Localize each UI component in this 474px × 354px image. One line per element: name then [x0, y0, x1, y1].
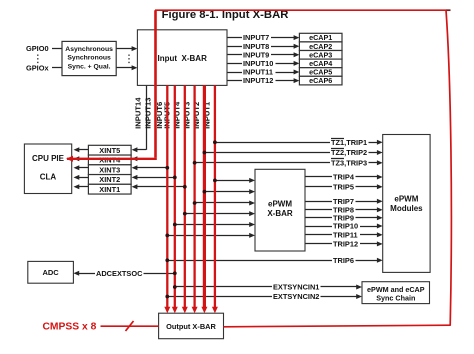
svg-text:Modules: Modules — [390, 204, 423, 213]
svg-text:GPIO0: GPIO0 — [26, 44, 49, 53]
svg-text:TRIP4: TRIP4 — [333, 173, 355, 182]
junction INPUT6 / TRIP6 — [165, 258, 169, 262]
svg-text:Sync Chain: Sync Chain — [376, 294, 415, 303]
svg-text:CLA: CLA — [40, 173, 57, 182]
wire qualifier to Input X-BAR (lower) — [116, 65, 137, 70]
wire qualifier to Input X-BAR (upper) — [116, 46, 137, 51]
XINT5 box — [88, 145, 131, 155]
junction INPUT5 / ePWM X-BAR — [173, 223, 177, 227]
XINT3 box — [88, 165, 131, 175]
red annotation right wire — [446, 10, 451, 325]
svg-text:INPUT13: INPUT13 — [143, 98, 152, 129]
wire GPIOx to qualifier — [52, 67, 62, 69]
red annotation bottom wire — [224, 325, 451, 327]
svg-text:ePWM: ePWM — [268, 200, 292, 209]
svg-text:Asynchronous: Asynchronous — [65, 46, 113, 53]
red annotation corner overshoot tick — [446, 9, 451, 11]
wire INPUT14 (to XINT5) — [132, 85, 147, 152]
wire TRIP5 — [305, 182, 383, 191]
svg-text:XINT5: XINT5 — [99, 146, 120, 155]
wire GPIO0 to qualifier — [52, 48, 62, 50]
wire XINT4 to CPU PIE — [74, 156, 89, 161]
wire INPUT13 (red highlighted, to XINT4) — [66, 10, 157, 162]
wire INPUT12 — [227, 76, 299, 85]
junction INPUT5 / EXTSYNCIN1 — [173, 285, 177, 289]
junction INPUT4 / ePWM X-BAR — [183, 212, 187, 216]
wire XINT1 to CPU PIE — [74, 184, 89, 189]
eCAP2 box — [299, 42, 342, 51]
ePWM X-BAR box U2 — [255, 169, 305, 251]
junction INPUT2 / ePWM X-BAR — [203, 190, 207, 194]
wire TZ3,TRIP3 — [195, 158, 383, 167]
CPU PIE CLA box — [24, 144, 71, 194]
svg-text:ePWM: ePWM — [394, 195, 418, 204]
wire EXTSYNCIN2 — [167, 292, 362, 301]
junction INPUT4 / XINT1 — [183, 185, 187, 189]
junction INPUT5 / XINT2 — [173, 176, 177, 180]
wire INPUT4 to ePWM X-BAR — [185, 211, 255, 216]
XINT2 box — [88, 175, 131, 185]
wire INPUT9 — [227, 50, 299, 59]
junction INPUT6 / XINT3 — [165, 166, 169, 170]
wire TZ1,TRIP1 — [215, 138, 383, 147]
red annotation top wire — [155, 9, 446, 11]
wire TRIP11 — [305, 230, 383, 239]
input qualifier box — [62, 41, 116, 75]
svg-text:TZ1,TRIP1: TZ1,TRIP1 — [331, 138, 367, 147]
svg-text:TRIP12: TRIP12 — [333, 240, 358, 249]
qualifier output ellipsis dots — [128, 55, 130, 65]
wire INPUT2 red vertical to Output X-BAR — [201, 85, 207, 313]
wire ADCEXTSOC — [73, 269, 174, 278]
svg-text:INPUT14: INPUT14 — [134, 97, 143, 129]
wire TRIP9 — [305, 213, 383, 222]
svg-text:ADCEXTSOC: ADCEXTSOC — [96, 269, 143, 278]
Input X-BAR box U1 — [137, 30, 227, 86]
wire TRIP4 — [305, 173, 383, 182]
svg-text:XINT2: XINT2 — [99, 175, 120, 184]
svg-text:GPIOx: GPIOx — [26, 63, 49, 72]
wire TRIP12 — [305, 240, 383, 249]
svg-text:CPU PIE: CPU PIE — [32, 154, 65, 163]
wire TRIP10 — [305, 222, 383, 231]
junction INPUT2 / TZ2 — [203, 151, 207, 155]
wire XINT5 to CPU PIE — [74, 147, 89, 152]
junction INPUT1 / ePWM X-BAR — [213, 179, 217, 183]
junction INPUT3 / ePWM X-BAR — [193, 201, 197, 205]
wire INPUT3 to ePWM X-BAR — [195, 201, 255, 206]
wire INPUT4 red vertical to Output X-BAR — [182, 85, 188, 313]
svg-text:TRIP11: TRIP11 — [333, 230, 358, 239]
XINT1 box — [88, 184, 131, 194]
wire INPUT5 to ePWM X-BAR — [175, 222, 255, 227]
wire TRIP8 — [305, 205, 383, 214]
svg-text:Sync. + Qual.: Sync. + Qual. — [68, 63, 111, 70]
wire XINT2 to CPU PIE — [74, 175, 89, 180]
junction INPUT1 / TZ1 — [213, 140, 217, 144]
wire TRIP7 — [305, 197, 383, 206]
wire INPUT6 to XINT3 — [132, 165, 168, 170]
svg-text:Output X-BAR: Output X-BAR — [166, 322, 216, 331]
Output X-BAR box U4 — [159, 313, 224, 339]
wire INPUT7 — [227, 33, 299, 42]
wire INPUT2 to ePWM X-BAR — [204, 189, 255, 194]
ePWM Modules box U3 — [383, 135, 430, 273]
svg-text:XINT4: XINT4 — [99, 156, 121, 165]
svg-text:TRIP10: TRIP10 — [333, 222, 358, 231]
wire INPUT6 to ePWM X-BAR — [167, 233, 255, 238]
wire INPUT3 red vertical to Output X-BAR — [192, 85, 198, 313]
junction INPUT5 / ADCEXTSOC — [173, 271, 177, 275]
svg-text:XINT1: XINT1 — [99, 185, 120, 194]
eCAP5 box — [299, 68, 342, 77]
wire EXTSYNCIN1 — [175, 283, 362, 292]
ePWM and eCAP Sync Chain box — [362, 282, 430, 304]
svg-text:eCAP6: eCAP6 — [309, 76, 332, 85]
junction INPUT6 / EXTSYNCIN2 — [165, 295, 169, 299]
svg-text:Input X-BAR: Input X-BAR — [158, 54, 208, 63]
svg-text:TZ3,TRIP3: TZ3,TRIP3 — [331, 158, 367, 167]
XINT4 box entry arrowhead — [132, 156, 138, 161]
svg-text:X-BAR: X-BAR — [267, 209, 293, 218]
GPIO ellipsis dots — [37, 55, 39, 65]
wire INPUT5 to XINT2 — [132, 175, 175, 180]
wire INPUT5 red vertical to Output X-BAR — [172, 85, 178, 313]
svg-text:INPUT12: INPUT12 — [243, 76, 273, 85]
wire TZ2,TRIP2 — [204, 148, 382, 157]
junction INPUT6 / ePWM X-BAR — [165, 234, 169, 238]
wire INPUT10 — [227, 59, 299, 68]
svg-text:EXTSYNCIN1: EXTSYNCIN1 — [273, 283, 319, 292]
eCAP1 box — [299, 33, 342, 42]
CMPSS bus width slash — [126, 321, 134, 331]
wire INPUT4 to XINT1 — [132, 184, 185, 189]
eCAP3 box — [299, 50, 342, 59]
svg-text:TZ2,TRIP2: TZ2,TRIP2 — [331, 148, 367, 157]
wire INPUT1 to ePWM X-BAR — [215, 178, 255, 183]
junction INPUT3 / TZ3 — [193, 161, 197, 165]
svg-text:EXTSYNCIN2: EXTSYNCIN2 — [273, 292, 319, 301]
svg-text:TRIP5: TRIP5 — [333, 182, 354, 191]
svg-text:TRIP6: TRIP6 — [333, 256, 354, 265]
wire INPUT6 red vertical to Output X-BAR — [164, 85, 170, 313]
svg-text:CMPSS x 8: CMPSS x 8 — [43, 321, 97, 332]
CMPSS bus wire — [101, 325, 159, 327]
svg-text:Synchronous: Synchronous — [67, 55, 111, 62]
ADC box — [28, 261, 74, 283]
eCAP4 box — [299, 59, 342, 68]
svg-text:ePWM and eCAP: ePWM and eCAP — [367, 285, 425, 294]
wire INPUT1 red vertical to Output X-BAR — [212, 85, 218, 313]
svg-text:XINT3: XINT3 — [99, 165, 120, 174]
wire XINT3 to CPU PIE — [74, 165, 89, 170]
eCAP6 box — [299, 76, 342, 85]
XINT4 box — [88, 155, 131, 165]
wire INPUT8 — [227, 42, 299, 51]
wire INPUT11 — [227, 68, 299, 77]
svg-text:ADC: ADC — [42, 268, 59, 277]
wire TRIP6 — [167, 256, 382, 265]
